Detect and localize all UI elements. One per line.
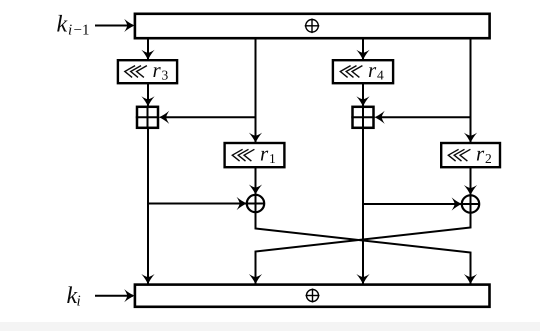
svg-text:4: 4	[377, 68, 384, 83]
svg-text:r: r	[260, 142, 269, 166]
svg-text:r: r	[368, 58, 377, 82]
svg-text:2: 2	[485, 151, 492, 166]
svg-text:−1: −1	[74, 23, 90, 39]
svg-text:1: 1	[269, 151, 276, 166]
svg-text:k: k	[57, 12, 68, 38]
svg-text:r: r	[153, 58, 162, 82]
svg-text:i: i	[77, 294, 81, 310]
svg-text:3: 3	[162, 68, 169, 83]
svg-text:i: i	[68, 23, 72, 39]
svg-text:r: r	[476, 142, 485, 166]
